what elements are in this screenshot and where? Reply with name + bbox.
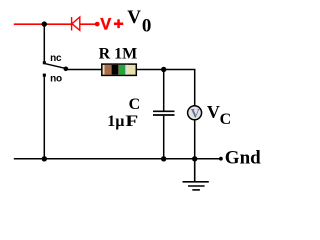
svg-text:Gnd: Gnd: [225, 148, 261, 169]
junction: [161, 67, 166, 72]
wire: [44, 23, 71, 25]
label 1uF: [107, 112, 138, 130]
junction: [192, 156, 197, 161]
svg-text:V: V: [100, 16, 111, 34]
wire: [195, 158, 221, 160]
wire: [43, 24, 45, 61]
svg-text:V: V: [191, 106, 201, 120]
node V+: [95, 22, 100, 27]
wire: [194, 120, 196, 159]
svg-text:F: F: [125, 112, 138, 130]
switch S1 blade: [45, 64, 66, 69]
wire: [164, 70, 195, 106]
svg-text:no: no: [50, 74, 62, 85]
svg-text:1: 1: [107, 113, 115, 130]
capacitor C1: [153, 70, 175, 159]
resistor R1: [102, 64, 137, 75]
svg-text:V: V: [207, 102, 220, 122]
svg-text:nc: nc: [50, 53, 62, 64]
wire: [14, 23, 45, 25]
svg-text:R 1M: R 1M: [99, 46, 138, 63]
junction: [161, 156, 166, 161]
node Gnd: [219, 157, 223, 161]
label VC: [207, 102, 231, 128]
wire: [136, 69, 163, 71]
svg-text:0: 0: [142, 15, 152, 36]
wire: [164, 158, 195, 160]
wire: [43, 77, 45, 159]
junction: [42, 21, 47, 26]
svg-text:C: C: [220, 111, 232, 128]
svg-text:C: C: [129, 96, 141, 113]
svg-text:V: V: [127, 7, 141, 28]
wire: [80, 23, 97, 25]
wire: [44, 158, 163, 160]
svg-text:µ: µ: [115, 113, 124, 130]
switch S1 nc contact: [43, 61, 46, 64]
diode D1: [72, 17, 80, 31]
wire: [66, 69, 102, 71]
label V+: [100, 16, 123, 34]
switch S1 no contact: [43, 74, 46, 77]
wire: [14, 158, 45, 160]
ground: [183, 159, 209, 190]
node: [64, 67, 69, 72]
voltmeter V: [188, 106, 202, 121]
label V0: [127, 7, 151, 36]
junction: [42, 156, 47, 161]
